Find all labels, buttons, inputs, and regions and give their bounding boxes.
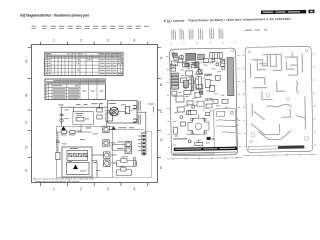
- warning triangle hot: [112, 126, 116, 130]
- posistor PT801: [125, 106, 129, 113]
- wire degauss to CN801: [137, 112, 146, 133]
- schematic frame: [32, 45, 158, 183]
- wire riser col3: [92, 161, 97, 178]
- left PCB ruler bottom: [167, 156, 243, 160]
- PCB warning black bar: [174, 147, 238, 152]
- varistor Z801: [56, 153, 60, 160]
- svg-text:1: 1: [53, 38, 55, 42]
- bottom small box: [195, 142, 203, 145]
- degauss coil symbol: [110, 107, 119, 116]
- schematic: [56, 101, 154, 178]
- label CN vertical: [133, 157, 136, 166]
- vertical part labels above PCB: [171, 28, 223, 39]
- label loops: [120, 157, 129, 167]
- wire loop P804: [117, 170, 132, 176]
- wire degauss-circuit to bus: [80, 125, 82, 132]
- row letters right: [160, 56, 163, 170]
- column ticks bottom: [41, 183, 148, 186]
- svg-text:Voltage values measured with t: Voltage values measured with the 130V se…: [35, 180, 80, 183]
- capacitor C803: [56, 141, 59, 142]
- right PCB ruler bottom: [243, 153, 317, 157]
- row ticks right: [158, 48, 161, 158]
- column numbers top: [53, 38, 136, 42]
- svg-text:3: 3: [107, 38, 109, 42]
- svg-text:2: 2: [80, 38, 82, 42]
- wires CN801 leads: [138, 136, 142, 150]
- label box P804: [121, 168, 127, 171]
- voltage table T1: [45, 52, 124, 75]
- label bridge: [68, 148, 86, 171]
- fuse S802: [103, 140, 116, 146]
- column ticks top: [41, 42, 148, 45]
- wire to degauss coil box: [99, 104, 101, 109]
- label AC right: [148, 104, 154, 113]
- resistor R802: [62, 131, 67, 134]
- resistor R801: [76, 117, 84, 121]
- smoothing cap box: [67, 163, 90, 175]
- right PCB outline: [245, 46, 313, 152]
- diode D801: [69, 153, 72, 156]
- label box P803: [121, 159, 128, 162]
- column numbers bottom: [53, 187, 136, 191]
- node AC-IN labels: [59, 103, 104, 171]
- labels above right PCB: [245, 29, 268, 30]
- bridge outer box: [62, 147, 92, 177]
- wire AC bus: [60, 106, 108, 108]
- warning triangle mains: [61, 126, 66, 130]
- svg-text:110V: 110V: [205, 97, 214, 101]
- transformer cross component: [188, 118, 209, 134]
- label R801: [76, 113, 90, 119]
- relay RL801: [106, 113, 113, 121]
- selector table T2: [45, 79, 106, 100]
- diode D802: [74, 153, 77, 156]
- labels vertical connector: [138, 101, 141, 125]
- board code text: [173, 138, 187, 140]
- degauss coil box L801: [108, 101, 138, 124]
- wire mains row: [57, 131, 93, 133]
- warning triangle bridge: [73, 165, 78, 170]
- wire loop P803: [117, 161, 137, 167]
- switch SW802: [118, 147, 132, 153]
- capacitor C802: [60, 119, 63, 122]
- wire left column: [57, 132, 59, 153]
- switch SW801: [118, 141, 132, 147]
- svg-text:230V: 230V: [204, 73, 213, 77]
- diode D803: [79, 153, 82, 156]
- dashed line live-hot boundary: [103, 129, 143, 131]
- cable fixture: [214, 109, 239, 148]
- wire branch to R-degauss: [73, 107, 75, 112]
- N terminal box: [207, 137, 211, 140]
- right PCB traces: [250, 53, 305, 140]
- connector CN801: [142, 133, 146, 155]
- fuse S801: [103, 126, 116, 132]
- label live-hot: [119, 126, 135, 129]
- connector pair P801: [133, 106, 137, 110]
- svg-text:1: 1: [53, 187, 55, 191]
- fuse F802: [104, 160, 117, 166]
- thermistor TH801 boxes: [97, 108, 102, 112]
- left PCB ruler top: [171, 41, 235, 45]
- warning triangle PCB: [196, 68, 203, 74]
- dashed box primary isolation: [57, 127, 113, 178]
- right PCB side rulers: [242, 54, 316, 147]
- bridge rect box: [67, 151, 88, 161]
- left PCB outline: [170, 48, 238, 156]
- capacitor C801: [60, 114, 64, 115]
- wire relay to fuse: [106, 121, 108, 126]
- svg-text:3: 3: [107, 187, 109, 191]
- label degauss: [109, 103, 126, 105]
- wire coil to posistor: [118, 111, 125, 113]
- wire fuses to switch: [112, 145, 125, 151]
- wire left branch: [61, 107, 63, 126]
- fuse F801: [104, 152, 117, 158]
- svg-text:Nota: Os valores de tensão fo: Nota: Os valores de tensão foram medidos…: [33, 178, 94, 181]
- left PCB interior: [171, 50, 236, 146]
- right PCB bottom bar: [248, 146, 278, 150]
- header black bar: [261, 10, 306, 14]
- diode D804: [83, 153, 86, 156]
- svg-text:9 (f) Diagrama Elétrico - Tran: 9 (f) Diagrama Elétrico - Transformer pr…: [20, 14, 89, 18]
- boundary secondary box: [113, 132, 152, 178]
- label RL801: [105, 109, 112, 112]
- pcb silk smudges: [172, 60, 229, 144]
- dashed box degauss circuit: [73, 112, 94, 125]
- part list labels above frame: [32, 26, 150, 29]
- labels R802 R803: [61, 131, 83, 136]
- wire bridge to fuses: [92, 154, 104, 156]
- PCB caption line: [173, 152, 237, 155]
- svg-text:4: 4: [134, 38, 136, 42]
- svg-text:4: 4: [134, 187, 136, 191]
- connector pair P802: [133, 119, 137, 123]
- svg-text:!: !: [198, 70, 199, 75]
- row letters left: [25, 59, 28, 172]
- svg-text:2: 2: [80, 187, 82, 191]
- left PCB side rulers: [166, 55, 241, 148]
- row ticks left: [28, 48, 31, 158]
- resistor R803: [70, 131, 75, 134]
